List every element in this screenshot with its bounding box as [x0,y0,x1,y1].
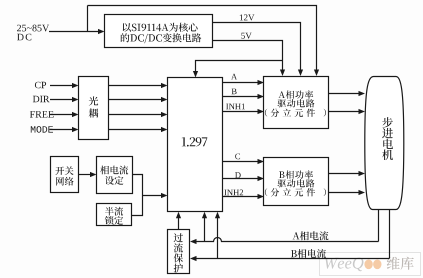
block U4 A-phase power drive (discrete) [264,77,329,129]
wire B current to 1.297 riser [217,218,219,259]
label phase current setting text [100,166,128,175]
label 12V [240,14,255,20]
block U3 controller 1.297 [168,78,223,212]
label stepper motor text [382,117,393,160]
block U1 DC/DC converter (SI9114A) [105,15,213,48]
wire B-phase drive out 1 to motor [329,173,360,175]
label INH1 [226,104,245,110]
label half-current lock text [105,207,123,216]
wire optocoupler to 1.297 ch3 [109,114,162,116]
label overcurrent protection text [174,233,183,272]
watermark oo dots [364,260,372,270]
wire phase B signal [223,96,259,98]
label A-phase current [293,231,329,240]
wire MODE input [50,129,72,131]
wire phase current set output [132,175,143,216]
label MODE [31,126,53,133]
wire FREE input [50,114,72,116]
wire switch network to phase current set [79,174,92,176]
wire 5V rail [213,41,283,71]
wire phase D signal [223,178,259,180]
wire phase C signal [223,161,259,163]
label FREE [30,111,54,118]
block U5 B-phase power drive (discrete) [264,158,329,206]
block overcurrent protection [168,230,190,274]
wire optocoupler to 1.297 ch1 [109,85,162,87]
wire A current to 1.297 riser [204,218,206,242]
label switch network text [55,166,73,175]
wire current set branch to 1.297 [143,195,163,197]
label D [235,172,241,178]
label 5V [241,33,251,39]
label B [232,89,237,95]
block switch network [51,157,79,193]
label B-phase current [291,249,326,258]
wire INH1 signal [223,111,259,113]
label B-phase drive text [279,170,313,178]
wire overcurrent protection to 1.297 [178,218,180,230]
block U2 optocoupler [79,77,109,140]
watermark box [320,253,421,276]
wire phase A signal [223,82,259,84]
wire DIR input [50,99,72,101]
motor M1 stepper motor [365,77,404,210]
wire B-phase drive out 2 to motor [329,192,360,194]
label 1.297 [182,137,208,146]
wire DC input 25-85V [49,31,98,33]
wire CP input [50,85,72,87]
wire 12V rail [213,23,301,71]
watermark WeeQoo text [325,258,364,272]
wire raw DC top rail to A-phase driver [88,6,317,71]
wire optocoupler to 1.297 ch2 [109,99,162,101]
label CP [35,82,46,89]
label optocoupler text [89,96,99,117]
wire A-phase drive out 2 to motor [329,111,360,113]
label C [235,154,240,160]
wire raw DC riser at junction [87,6,89,32]
wire optocoupler to 1.297 ch4 [109,129,162,131]
label DC/DC converter text [123,23,198,32]
wire A-phase drive out 1 to motor [329,93,360,95]
label 25~85V DC [17,25,49,32]
block phase current setting [97,157,133,194]
wire 5V branch to 1.297 [196,61,283,72]
wire B-phase current feedback [196,210,390,259]
wire A-phase current feedback [196,210,379,242]
block half-current lock [97,204,132,226]
wire INH2 signal [223,196,259,198]
label A [231,74,237,80]
label INH2 [224,190,243,196]
watermark weiku text [387,257,414,270]
label A-phase drive text [279,90,314,98]
label DIR [33,96,50,102]
